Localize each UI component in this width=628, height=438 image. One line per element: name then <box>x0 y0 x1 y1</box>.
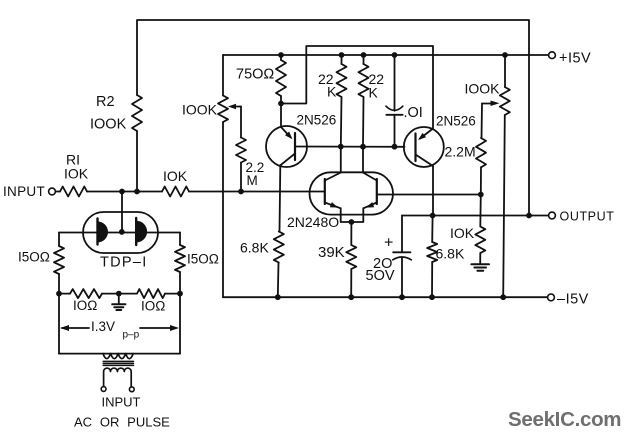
wire +15V rail <box>223 54 549 56</box>
resistor 10-ohm left <box>70 289 102 298</box>
label R1 <box>66 152 80 168</box>
wire right 150 lead <box>179 233 181 246</box>
wire input line <box>56 191 325 193</box>
svg-text:39K: 39K <box>318 244 345 261</box>
node 22K-1 bottom <box>338 144 344 150</box>
label 2.2M right <box>445 144 476 160</box>
label 10-ohm right <box>141 299 165 314</box>
label 6.8K right <box>436 246 465 262</box>
node 10-ohm center <box>116 291 122 297</box>
label 10K series <box>163 168 188 184</box>
node right base junction <box>478 192 484 198</box>
label Q3 2N2480 <box>287 214 339 230</box>
wire right drop <box>179 294 181 354</box>
svg-text:IOK: IOK <box>163 168 188 184</box>
terminal transformer left <box>101 387 106 392</box>
svg-text:IOOK: IOOK <box>465 81 501 97</box>
label TDP-1 <box>100 255 148 271</box>
wire pot-right wiper to 2.2M <box>481 104 484 139</box>
label OUTPUT <box>560 210 615 224</box>
label .01 <box>404 105 423 121</box>
potentiometer 100K right <box>482 87 510 115</box>
svg-text:+: + <box>384 235 393 252</box>
wire 2.2M left bottom lead <box>240 163 242 192</box>
label 39K <box>318 244 345 261</box>
label 10K right <box>450 225 475 241</box>
node 750 top <box>278 52 284 58</box>
resistor R2 100K <box>132 95 142 131</box>
resistor 150-ohm left <box>54 246 64 274</box>
wire right base line <box>377 194 481 196</box>
svg-text:K: K <box>369 85 379 101</box>
label 100K right <box>465 81 501 97</box>
resistor 2.2M right <box>476 138 486 195</box>
wire feedback top from R2 node to output node <box>137 20 529 216</box>
svg-text:K: K <box>327 84 337 100</box>
resistor 6.8K left <box>274 232 284 298</box>
wire bottom link <box>59 353 180 355</box>
svg-text:SeekIC.com: SeekIC.com <box>508 408 621 431</box>
node 10-ohm left <box>56 291 62 297</box>
label 750-ohm <box>236 67 274 83</box>
node output feedback junction <box>526 213 532 219</box>
label 100K left <box>182 102 218 118</box>
resistor R1 10K <box>60 187 87 197</box>
label -15V <box>557 292 589 308</box>
svg-text:INPUT: INPUT <box>102 395 141 410</box>
node input-photocell junction <box>119 189 125 195</box>
wire left drop <box>58 294 60 354</box>
resistor 6.8K right <box>427 216 437 298</box>
resistor 10-ohm right <box>137 289 165 298</box>
label R2 value 100K <box>90 117 127 133</box>
photocell TDP-1 body <box>83 212 158 253</box>
node 6.8K left bottom <box>275 294 281 300</box>
transistor Q1 2N526 left <box>266 104 307 232</box>
label Q1 2N526 <box>297 113 337 128</box>
svg-text:2.2M: 2.2M <box>445 144 476 160</box>
svg-text:6.8K: 6.8K <box>240 240 269 256</box>
svg-text:IOΩ: IOΩ <box>141 299 165 314</box>
label cap 20 <box>373 256 392 272</box>
logo SeekIC.com <box>508 408 621 431</box>
label R2 <box>96 94 115 110</box>
svg-text:IOΩ: IOΩ <box>73 298 97 313</box>
terminal INPUT <box>49 188 56 195</box>
label 2.2M left <box>246 160 265 188</box>
label Q2 2N526 <box>436 114 476 129</box>
node 2.2M bottom junction <box>238 189 244 195</box>
svg-text:IOOK: IOOK <box>90 117 127 133</box>
node 22K-2 top <box>361 52 367 58</box>
wire pot-left wiper to 2.2M <box>240 107 242 138</box>
transistor Q3 2N2480 dual <box>310 172 394 222</box>
resistor 2.2M left <box>236 138 246 163</box>
transformer secondary winding <box>103 354 133 359</box>
svg-text:IOK: IOK <box>450 225 475 241</box>
ground right <box>471 264 489 270</box>
wire emitter link <box>281 46 433 128</box>
svg-text:IOOK: IOOK <box>182 102 218 118</box>
svg-text:p–p: p–p <box>123 330 140 341</box>
node 750 bottom <box>278 101 284 107</box>
label 10-ohm left <box>73 298 97 313</box>
wire photocell center tap <box>121 192 123 232</box>
wire -15V rail <box>223 296 548 298</box>
svg-text:.OI: .OI <box>404 105 423 121</box>
node pot-right top <box>502 52 508 58</box>
label +15V <box>559 51 591 67</box>
svg-text:I.3V: I.3V <box>91 319 115 334</box>
wire pot-right bottom to -15V <box>503 115 505 297</box>
svg-text:6.8K: 6.8K <box>436 246 465 262</box>
svg-text:IOK: IOK <box>64 166 89 182</box>
wire 39K top lead <box>350 222 352 245</box>
transformer core <box>103 361 133 365</box>
svg-text:I5OΩ: I5OΩ <box>187 252 219 267</box>
node 22K-1 top <box>339 52 345 58</box>
wire OUTPUT rail <box>402 215 549 217</box>
svg-text:I5OΩ: I5OΩ <box>18 250 50 265</box>
svg-text:AC OR PULSE: AC OR PULSE <box>74 415 170 430</box>
wire 10-ohm line <box>59 293 180 295</box>
label AC OR PULSE <box>74 415 170 430</box>
resistor 150-ohm right <box>175 245 185 272</box>
wire right 150 bottom <box>179 272 181 294</box>
svg-text:2N248O: 2N248O <box>287 214 339 230</box>
potentiometer 100K left <box>218 96 241 123</box>
label cap 50V <box>366 268 395 284</box>
label 150 right <box>187 252 219 267</box>
node 39K bottom <box>348 294 354 300</box>
label 22K second <box>369 71 385 101</box>
svg-text:M: M <box>247 173 258 188</box>
node cap-01 bottom <box>392 144 398 150</box>
wire base line <box>295 146 405 148</box>
resistor 750-ohm <box>276 55 286 104</box>
terminal -15V <box>548 294 555 301</box>
photocell left element <box>98 219 109 245</box>
svg-text:2N526: 2N526 <box>436 114 476 129</box>
photocell right element <box>136 218 147 245</box>
node input-R2 junction <box>134 189 140 195</box>
ground center <box>112 294 125 310</box>
node 6.8K right bottom <box>429 294 435 300</box>
label cap plus <box>384 235 393 252</box>
wire left 150 lead <box>58 233 60 247</box>
wire pot-left top lead <box>222 55 224 96</box>
label INPUT <box>3 184 45 199</box>
terminal +15V <box>549 52 556 59</box>
svg-text:R2: R2 <box>96 94 115 110</box>
terminal OUTPUT <box>549 212 556 219</box>
svg-text:INPUT: INPUT <box>3 184 45 199</box>
resistor 22K second <box>359 55 369 173</box>
label R1 value 10K <box>64 166 89 182</box>
resistor 10K series <box>162 187 189 197</box>
svg-text:5OV: 5OV <box>366 268 395 284</box>
resistor 22K first <box>337 55 347 173</box>
transistor Q2 2N526 right <box>404 127 444 216</box>
wire pot-right top lead <box>504 55 506 87</box>
resistor 39K <box>346 245 356 297</box>
svg-text:2N526: 2N526 <box>297 113 337 128</box>
capacitor .01 <box>386 55 403 147</box>
resistor 10K right <box>475 195 485 265</box>
node cap bottom <box>399 294 405 300</box>
label INPUT bottom <box>102 395 141 410</box>
node 22K-2 bottom <box>360 144 366 150</box>
svg-text:TDP–I: TDP–I <box>100 255 148 271</box>
node emitter junction <box>349 219 355 225</box>
capacitor 20uF 50V <box>393 216 411 298</box>
node photocell center <box>119 229 125 235</box>
terminal transformer right <box>129 387 134 392</box>
wire left 150 bottom <box>58 274 60 294</box>
node Q2 collector output <box>430 213 436 219</box>
label 6.8K left <box>240 240 269 256</box>
svg-text:–I5V: –I5V <box>557 292 589 308</box>
node 10-ohm right <box>177 291 183 297</box>
svg-text:+I5V: +I5V <box>559 51 591 67</box>
transformer primary winding <box>104 368 132 386</box>
wire pot-left bottom to -15V corner <box>222 122 224 297</box>
node cap-01 top <box>392 52 398 58</box>
svg-text:75OΩ: 75OΩ <box>236 67 274 83</box>
dimension 1.3Vp-p <box>60 319 179 341</box>
label 22K first <box>318 71 337 100</box>
wire photocell horizontal <box>59 232 180 234</box>
svg-text:OUTPUT: OUTPUT <box>560 210 615 224</box>
label 150 left <box>18 250 50 265</box>
node pot-right bottom <box>500 294 506 300</box>
